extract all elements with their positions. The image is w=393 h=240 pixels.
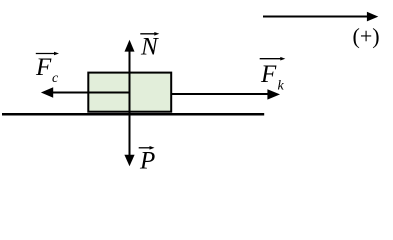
svg-text:k: k [278,79,285,94]
svg-text:N: N [140,34,159,61]
svg-text:P: P [139,148,155,175]
svg-text:F: F [35,54,52,81]
svg-text:(+): (+) [353,24,380,49]
svg-text:F: F [260,61,277,88]
svg-text:c: c [52,71,59,86]
